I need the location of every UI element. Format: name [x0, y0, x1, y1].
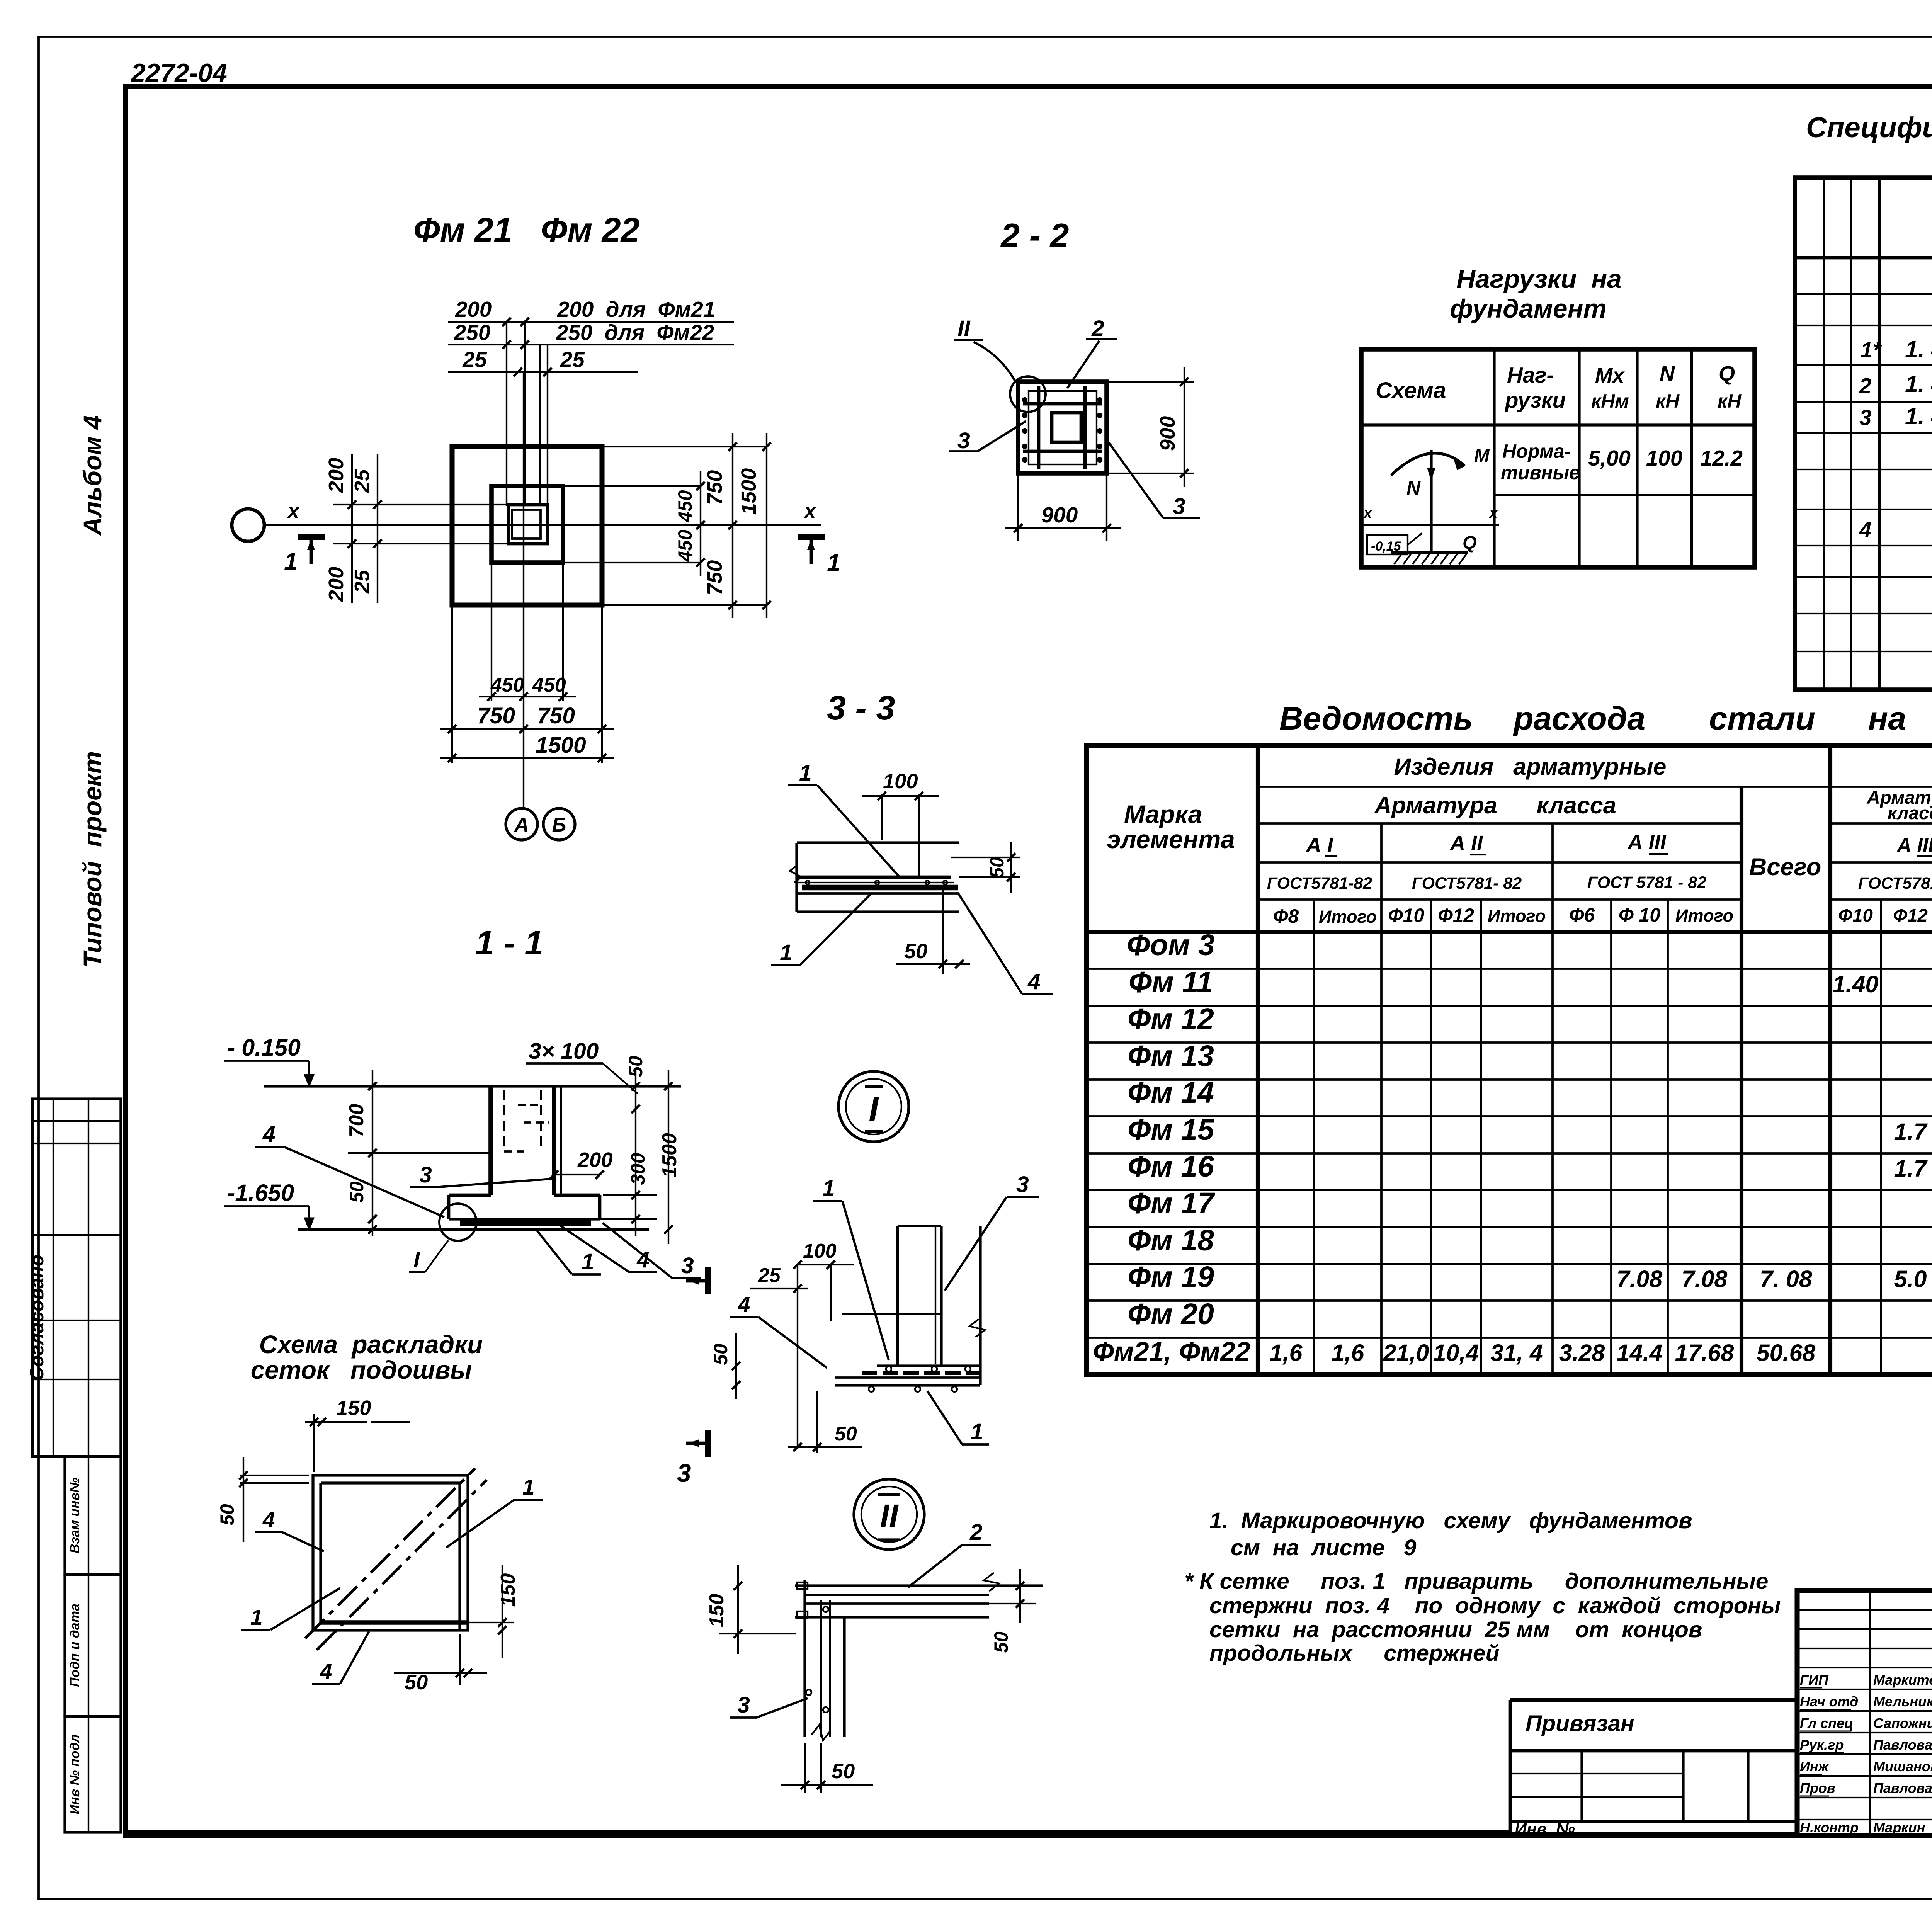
svg-text:50: 50 — [904, 940, 927, 963]
svg-text:продольных стержней: продольных стержней — [1209, 1641, 1499, 1666]
svg-text:Сапожникова: Сапожникова — [1873, 1715, 1932, 1731]
svg-text:3.28: 3.28 — [1559, 1340, 1605, 1366]
svg-text:А III: А III — [1627, 831, 1666, 854]
mesh layout dim 50 bottom — [459, 1634, 461, 1685]
svg-text:Наг-: Наг- — [1507, 363, 1554, 387]
svg-text:3: 3 — [419, 1162, 432, 1187]
detail II dim 150 left — [737, 1565, 739, 1654]
svg-text:25: 25 — [462, 347, 487, 372]
svg-text:кН: кН — [1718, 390, 1742, 412]
svg-text:3: 3 — [957, 428, 970, 453]
svg-text:Павлова: Павлова — [1873, 1780, 1932, 1796]
steel table header horizontals — [1258, 786, 1932, 788]
bottom dimension 750 750 — [451, 605, 453, 763]
svg-text:5.0: 5.0 — [1894, 1266, 1927, 1292]
svg-text:расхода: расхода — [1513, 700, 1645, 736]
svg-text:Инж: Инж — [1800, 1759, 1830, 1774]
svg-text:элемента: элемента — [1107, 825, 1235, 854]
svg-text:Гл спец: Гл спец — [1800, 1715, 1853, 1731]
privyazan box frame — [1510, 1698, 1797, 1702]
svg-text:Ф 10: Ф 10 — [1619, 904, 1660, 926]
svg-text:1,6: 1,6 — [1332, 1340, 1365, 1366]
svg-text:7.08: 7.08 — [1682, 1266, 1728, 1292]
svg-text:Итого: Итого — [1488, 906, 1546, 926]
mesh layout square sheet 1 — [313, 1475, 468, 1630]
svg-text:4: 4 — [320, 1659, 332, 1684]
svg-text:ГОСТ5781- 82: ГОСТ5781- 82 — [1858, 874, 1932, 893]
svg-text:Фм 11: Фм 11 — [1129, 966, 1213, 999]
section 3-3 dim 50 bottom — [942, 889, 944, 974]
section 1-1 top ground line — [264, 1085, 681, 1087]
svg-text:1500: 1500 — [658, 1133, 681, 1178]
section 1-1 pedestal steps — [449, 1194, 491, 1197]
svg-text:Взам инв№: Взам инв№ — [68, 1478, 82, 1553]
svg-text:Инв № подл: Инв № подл — [68, 1734, 82, 1814]
box Подп и дата — [65, 1575, 121, 1716]
specification table header line — [1795, 256, 1932, 260]
svg-text:на: на — [1868, 700, 1906, 736]
mesh layout dim 150 top — [313, 1414, 315, 1472]
svg-text:1500: 1500 — [536, 733, 586, 758]
bottom dimension 1500 — [440, 757, 614, 759]
svg-text:Фм21, Фм22: Фм21, Фм22 — [1093, 1337, 1250, 1367]
svg-text:150: 150 — [497, 1573, 519, 1607]
box Взам инв № — [65, 1456, 121, 1575]
svg-text:1. 412 - 1/77- В.3 - 020: 1. 412 - 1/77- В.3 - 020 — [1905, 371, 1932, 397]
svg-text:I: I — [869, 1089, 879, 1128]
mesh layout dim 150 right — [468, 1622, 514, 1623]
svg-text:Норма-: Норма- — [1502, 440, 1571, 462]
svg-text:150: 150 — [336, 1396, 371, 1420]
svg-text:450: 450 — [532, 674, 566, 696]
svg-text:Всего: Всего — [1749, 854, 1821, 881]
svg-text:Фм 17: Фм 17 — [1128, 1187, 1215, 1220]
axis line x-x — [264, 524, 821, 526]
svg-text:Марка: Марка — [1124, 800, 1202, 828]
inner frame bottom closure — [126, 1830, 1510, 1835]
left dimension chain 200/25 — [351, 454, 353, 603]
loads scheme moment arc M — [1391, 453, 1464, 475]
column outline (plan) — [512, 510, 541, 539]
specification table verticals — [1823, 178, 1825, 690]
detail II horizontal bundle — [795, 1584, 1043, 1587]
detail I dim 50 bottom — [788, 1446, 862, 1448]
pedestal outline (plan) — [492, 486, 563, 563]
anchor bolt projection lines up — [506, 322, 507, 506]
svg-text:3: 3 — [677, 1459, 691, 1487]
svg-text:1: 1 — [522, 1475, 534, 1499]
svg-text:25: 25 — [350, 469, 374, 493]
detail I break mark — [969, 1319, 985, 1337]
svg-text:450: 450 — [674, 490, 696, 522]
section 1-1 anchor bolts dashed — [503, 1090, 505, 1151]
svg-text:50: 50 — [986, 857, 1008, 878]
section mark 1 right — [798, 534, 825, 540]
svg-text:12.2: 12.2 — [1700, 446, 1743, 470]
svg-text:200: 200 — [325, 458, 348, 493]
svg-text:Фм 21 Фм 22: Фм 21 Фм 22 — [413, 211, 640, 249]
svg-text:x: x — [1489, 505, 1498, 521]
svg-text:Мх: Мх — [1595, 364, 1625, 387]
svg-text:1,6: 1,6 — [1270, 1340, 1303, 1366]
section 3-3 dim 50 right — [951, 857, 1020, 858]
svg-text:x: x — [1363, 505, 1372, 521]
svg-text:50.68: 50.68 — [1757, 1340, 1816, 1366]
svg-text:Итого: Итого — [1319, 907, 1377, 927]
svg-text:31, 4: 31, 4 — [1490, 1340, 1543, 1366]
stamp left row lines — [1797, 1609, 1932, 1611]
svg-text:Фм 16: Фм 16 — [1128, 1150, 1214, 1183]
mesh layout square sheet 2 (offset) — [319, 1483, 322, 1622]
svg-text:Ф12: Ф12 — [1893, 905, 1928, 926]
svg-text:750: 750 — [703, 560, 726, 595]
section 1-1 inner reinforcement line — [560, 1086, 562, 1195]
svg-text:Спецификация к фундаментам: Спецификация к фундаментам Фм 21 , Фм 22 — [1806, 111, 1932, 143]
svg-text:А: А — [514, 814, 529, 836]
svg-text:Q: Q — [1463, 532, 1477, 553]
detail I dim 25 — [750, 1288, 808, 1289]
svg-text:50: 50 — [346, 1181, 367, 1203]
svg-text:А III: А III — [1896, 834, 1932, 857]
section 2-2 mesh cage — [1029, 391, 1097, 464]
svg-text:50: 50 — [990, 1631, 1012, 1653]
detail I step line — [842, 1313, 941, 1315]
svg-text:см на листе 9: см на листе 9 — [1231, 1535, 1417, 1560]
vertical axis line down to grid bubbles — [523, 372, 524, 809]
svg-text:Б: Б — [552, 814, 566, 836]
svg-text:Ф12: Ф12 — [1438, 905, 1474, 926]
section cut mark 3 upper — [705, 1267, 711, 1294]
svg-text:М: М — [1474, 446, 1490, 466]
axis circle left — [232, 509, 264, 541]
svg-text:700: 700 — [345, 1104, 368, 1138]
approvals table left margin — [32, 1099, 121, 1456]
foundation plate outline (plan) — [452, 447, 602, 605]
svg-text:рузки: рузки — [1504, 388, 1566, 412]
mesh layout dim 50 left — [240, 1475, 309, 1476]
svg-text:Ф8: Ф8 — [1273, 905, 1299, 927]
specification table row lines — [1795, 293, 1932, 295]
detail I wall top connector — [898, 1225, 941, 1227]
svg-text:50: 50 — [405, 1671, 428, 1694]
svg-text:3 - 3: 3 - 3 — [827, 689, 895, 727]
box Инв № подл — [65, 1716, 121, 1832]
svg-text:x: x — [287, 500, 300, 522]
loads scheme level -0.15 box — [1367, 535, 1408, 554]
svg-text:Согласовано: Согласовано — [26, 1255, 48, 1381]
svg-text:200: 200 — [455, 297, 492, 321]
section 1-1 bottom mesh — [460, 1220, 591, 1226]
detail I mesh bundle — [877, 1364, 980, 1367]
top dimension line 200 — [448, 321, 734, 323]
svg-text:сетки на расстоянии 25 мм: сетки на расстоянии 25 мм от концов — [1209, 1617, 1702, 1642]
svg-text:Пров: Пров — [1800, 1780, 1835, 1796]
section 1-1 detail circle I — [439, 1204, 476, 1241]
svg-text:I: I — [413, 1247, 420, 1272]
svg-text:450: 450 — [490, 674, 524, 696]
svg-text:150: 150 — [706, 1594, 728, 1628]
svg-text:3: 3 — [1016, 1172, 1029, 1197]
svg-text:N: N — [1406, 477, 1421, 499]
svg-text:2: 2 — [1091, 316, 1104, 341]
svg-text:Фм 19: Фм 19 — [1128, 1260, 1214, 1294]
svg-text:Ведомость: Ведомость — [1279, 700, 1473, 736]
loads scheme ground hatch — [1391, 551, 1468, 554]
svg-text:300: 300 — [627, 1153, 649, 1185]
svg-text:3: 3 — [1173, 494, 1185, 519]
section 1-1 right dim chain 50/300 — [635, 1070, 636, 1236]
svg-text:900: 900 — [1041, 503, 1078, 527]
svg-text:50: 50 — [832, 1760, 855, 1783]
svg-text:Фом 3: Фом 3 — [1127, 929, 1215, 962]
svg-text:25: 25 — [560, 347, 585, 372]
svg-text:стержни поз. 4 по одному: стержни поз. 4 по одному с каждой сторон… — [1209, 1593, 1781, 1618]
svg-text:II: II — [957, 316, 971, 341]
bottom dimension 450 450 — [491, 563, 492, 701]
svg-text:Изделия арматурные: Изделия арматурные — [1394, 753, 1667, 780]
section 3-3 mesh slab outline — [797, 841, 959, 844]
svg-text:1. 412 - 1/77 - В3 - 100: 1. 412 - 1/77 - В3 - 100 — [1905, 403, 1932, 429]
svg-text:100: 100 — [803, 1240, 837, 1262]
svg-text:4: 4 — [262, 1507, 275, 1532]
svg-text:Q: Q — [1719, 362, 1735, 385]
detail II bar dots — [823, 1607, 828, 1612]
svg-text:Ф10: Ф10 — [1388, 905, 1424, 926]
svg-text:Фм 14: Фм 14 — [1128, 1076, 1214, 1109]
svg-text:750: 750 — [537, 703, 575, 728]
detail II dim 50 right — [989, 1585, 1036, 1586]
svg-text:1. Маркировочную схему фу: 1. Маркировочную схему фундаментов — [1209, 1508, 1692, 1533]
svg-text:5,00: 5,00 — [1588, 446, 1631, 470]
svg-text:1: 1 — [250, 1605, 262, 1629]
svg-text:Подп и дата: Подп и дата — [68, 1604, 82, 1687]
svg-text:100: 100 — [883, 770, 918, 793]
svg-text:200 для Фм21: 200 для Фм21 — [557, 297, 715, 321]
section 2-2 right dimension 900 — [1107, 381, 1194, 383]
svg-text:ГОСТ 5781 - 82: ГОСТ 5781 - 82 — [1587, 873, 1706, 892]
detail I dim 50 left — [735, 1333, 737, 1399]
wall lines to the left — [352, 504, 509, 505]
svg-text:50: 50 — [216, 1504, 238, 1526]
svg-text:Нагрузки на: Нагрузки на — [1456, 265, 1622, 294]
svg-text:x: x — [803, 500, 816, 522]
right dimension chain 750/750 — [602, 446, 767, 447]
svg-text:Фм 18: Фм 18 — [1128, 1224, 1214, 1257]
section 2-2 rebar dots — [1023, 398, 1027, 402]
svg-text:Павлова: Павлова — [1873, 1737, 1932, 1753]
svg-text:450: 450 — [674, 529, 696, 562]
svg-text:1: 1 — [799, 760, 812, 786]
svg-text:А I: А I — [1305, 833, 1333, 857]
svg-text:Привязан: Привязан — [1526, 1711, 1634, 1736]
loads scheme x axis — [1363, 524, 1499, 526]
svg-text:3: 3 — [737, 1692, 750, 1718]
svg-text:II: II — [880, 1497, 899, 1534]
node circle II mark — [1010, 376, 1046, 412]
svg-text:17.68: 17.68 — [1675, 1340, 1734, 1366]
svg-text:4: 4 — [1027, 969, 1041, 994]
svg-text:ГОСТ5781-82: ГОСТ5781-82 — [1267, 874, 1372, 893]
svg-text:2: 2 — [969, 1520, 983, 1545]
svg-text:Нач отд: Нач отд — [1800, 1694, 1858, 1709]
svg-text:стали: стали — [1709, 700, 1815, 736]
svg-text:кН: кН — [1656, 390, 1680, 412]
svg-text:1: 1 — [780, 940, 793, 965]
svg-text:- 0.150: - 0.150 — [227, 1034, 301, 1061]
detail II vertical bundle — [803, 1580, 806, 1737]
svg-text:200: 200 — [577, 1148, 613, 1172]
steel table outer frame — [1087, 745, 1932, 1374]
svg-text:1: 1 — [822, 1176, 835, 1201]
svg-text:Схема: Схема — [1376, 378, 1446, 403]
svg-text:Рук.гр: Рук.гр — [1800, 1737, 1844, 1753]
svg-text:1: 1 — [284, 548, 298, 575]
top dimension line 250 — [448, 344, 734, 345]
right dimension line 1500 — [766, 433, 767, 618]
svg-text:750: 750 — [477, 703, 515, 728]
detail II dim 50 bottom — [804, 1743, 806, 1793]
section 3-3 dim 100 — [881, 794, 883, 840]
svg-text:1.40: 1.40 — [1833, 971, 1879, 997]
mesh layout diagonals — [305, 1468, 475, 1638]
svg-text:3: 3 — [1859, 405, 1871, 430]
section 3-3 break mark left — [790, 866, 801, 883]
loads table frame — [1361, 349, 1755, 567]
svg-text:Схема раскладки: Схема раскладки — [259, 1330, 483, 1359]
svg-text:тивные: тивные — [1501, 462, 1580, 483]
svg-text:1500: 1500 — [737, 468, 760, 515]
section 3-3 mesh bars — [798, 876, 951, 879]
svg-text:Фм 20: Фм 20 — [1128, 1298, 1214, 1331]
svg-text:Фм 15: Фм 15 — [1128, 1113, 1214, 1146]
svg-text:Фм 12: Фм 12 — [1128, 1002, 1214, 1036]
svg-text:сеток подошвы: сеток подошвы — [251, 1356, 472, 1384]
section 1-1 left dim chain 700/50 — [372, 1070, 373, 1236]
svg-text:2272-04: 2272-04 — [130, 59, 227, 88]
svg-text:-1.650: -1.650 — [227, 1180, 294, 1206]
svg-text:25: 25 — [350, 570, 374, 594]
loads scheme column line — [1430, 450, 1432, 553]
svg-text:Фм 13: Фм 13 — [1128, 1039, 1214, 1073]
svg-text:класса: класса — [1888, 803, 1932, 823]
svg-text:14.4: 14.4 — [1617, 1340, 1663, 1366]
steel table data row lines — [1087, 968, 1932, 970]
svg-text:10,4: 10,4 — [1433, 1340, 1479, 1366]
svg-text:4: 4 — [1859, 517, 1871, 542]
section 1-1 base slab lines — [298, 1228, 649, 1231]
detail I wall verticals — [896, 1226, 899, 1366]
stamp outer frame — [1797, 1590, 1932, 1835]
section 2-2 pedestal outline — [1018, 382, 1107, 473]
svg-text:* К сетке поз. 1 привари: * К сетке поз. 1 приварить дополнительны… — [1184, 1569, 1768, 1594]
section 3-3 rebar dots — [806, 881, 810, 884]
svg-text:100: 100 — [1646, 446, 1682, 470]
detail I dim 100 — [798, 1264, 854, 1265]
svg-text:ГИП: ГИП — [1800, 1672, 1829, 1688]
svg-text:Маркитедер: Маркитедер — [1873, 1672, 1932, 1688]
svg-text:50: 50 — [625, 1056, 646, 1077]
grid bubble Б — [543, 808, 575, 840]
svg-text:7. 08: 7. 08 — [1760, 1266, 1812, 1292]
detail I bar end circles — [886, 1366, 891, 1372]
svg-text:250 для Фм22: 250 для Фм22 — [556, 320, 714, 345]
svg-text:2: 2 — [1859, 374, 1871, 398]
svg-text:1: 1 — [971, 1419, 983, 1444]
right dimension chain 450/450 — [563, 485, 701, 487]
svg-text:50: 50 — [710, 1344, 731, 1365]
top dimension line 25 — [448, 371, 638, 373]
svg-text:ГОСТ5781- 82: ГОСТ5781- 82 — [1412, 874, 1522, 893]
svg-text:2 - 2: 2 - 2 — [1000, 216, 1069, 255]
svg-text:3× 100: 3× 100 — [529, 1039, 599, 1064]
svg-text:250: 250 — [454, 320, 490, 345]
column cup outline (plan) — [509, 505, 548, 544]
svg-text:50: 50 — [835, 1423, 857, 1445]
detail II corner plates — [797, 1582, 808, 1589]
section 1-1 dim 1500 — [668, 1070, 669, 1244]
section 2-2 column cup — [1052, 413, 1081, 442]
svg-text:1: 1 — [582, 1249, 594, 1274]
svg-text:кНм: кНм — [1591, 390, 1629, 412]
svg-text:7.08: 7.08 — [1617, 1266, 1663, 1292]
svg-text:Мишанова: Мишанова — [1873, 1759, 1932, 1774]
svg-text:1 - 1: 1 - 1 — [475, 923, 543, 962]
svg-text:1*: 1* — [1861, 338, 1882, 362]
svg-text:4: 4 — [738, 1292, 750, 1316]
svg-text:Ф10: Ф10 — [1838, 905, 1873, 926]
steel table column verticals — [1313, 900, 1315, 1374]
svg-text:N: N — [1660, 362, 1675, 385]
svg-text:Мельников: Мельников — [1873, 1694, 1932, 1709]
svg-text:Арматура класса: Арматура класса — [1374, 792, 1616, 818]
svg-text:Типовой проект: Типовой проект — [78, 751, 107, 968]
svg-text:200: 200 — [325, 567, 348, 602]
svg-text:А II: А II — [1449, 832, 1483, 855]
steel table group verticals — [1380, 823, 1383, 1374]
stamp left columns — [1869, 1590, 1871, 1835]
svg-text:1.7: 1.7 — [1894, 1155, 1928, 1182]
section mark 1 left — [298, 534, 325, 540]
section cut mark 3 lower — [705, 1430, 711, 1457]
svg-text:Ф6: Ф6 — [1569, 904, 1595, 926]
svg-text:25: 25 — [758, 1264, 781, 1287]
section 2-2 bottom dimension 900 — [1017, 473, 1019, 541]
svg-text:1.7: 1.7 — [1894, 1119, 1928, 1145]
svg-text:Итого: Итого — [1675, 906, 1733, 925]
svg-text:4: 4 — [262, 1122, 276, 1147]
svg-text:900: 900 — [1156, 416, 1179, 451]
svg-text:Альбом 4: Альбом 4 — [78, 415, 107, 536]
detail II break marks — [984, 1573, 999, 1591]
svg-text:1: 1 — [827, 549, 840, 577]
detail circle I — [838, 1071, 909, 1142]
svg-text:750: 750 — [703, 470, 726, 505]
steel table main verticals — [1256, 745, 1260, 1374]
svg-text:21,0: 21,0 — [1383, 1340, 1429, 1366]
detail circle II — [854, 1479, 924, 1549]
svg-text:1. 410 - 3 В.1: 1. 410 - 3 В.1 — [1905, 336, 1932, 362]
svg-text:Н.контр: Н.контр — [1800, 1820, 1859, 1835]
specification table frame — [1795, 178, 1932, 690]
svg-text:3: 3 — [681, 1253, 694, 1278]
section 1-1 dim 200 — [554, 1174, 600, 1175]
svg-text:Маркин: Маркин — [1873, 1820, 1925, 1835]
grid bubble А — [506, 808, 537, 840]
section 1-1 column sides — [488, 1086, 493, 1195]
svg-text:фундамент: фундамент — [1450, 294, 1607, 323]
